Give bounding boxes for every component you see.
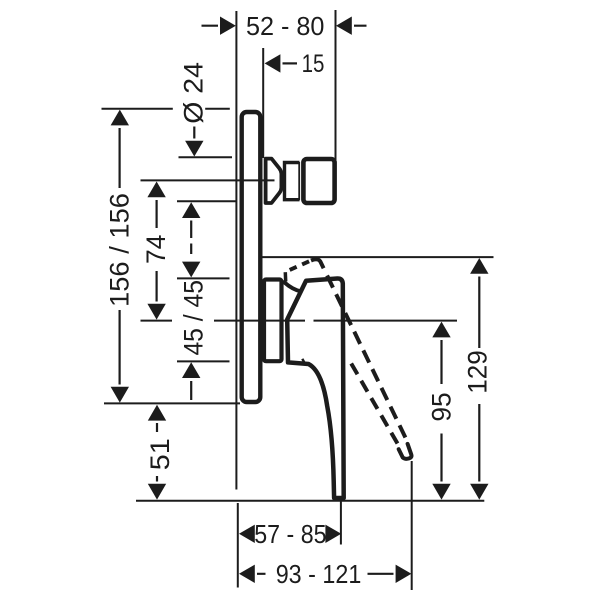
extent line at plate top y109 xyxy=(102,108,230,110)
dashed raised lever back edge and upper edge xyxy=(286,261,311,272)
parting tick on lever neck xyxy=(302,359,306,365)
extent line y361 xyxy=(177,360,230,362)
svg-text:93 - 121: 93 - 121 xyxy=(276,559,362,589)
nut inner line xyxy=(298,162,300,200)
outlet body xyxy=(303,159,334,203)
svg-text:45 / 45: 45 / 45 xyxy=(178,280,208,356)
axis line through outlet y180 xyxy=(141,179,275,181)
dim 156/156 arrows xyxy=(111,110,129,126)
dim 95 arrows xyxy=(432,322,450,338)
extent line plate bottom y403 xyxy=(104,402,240,404)
dim 93-121 arrows xyxy=(239,565,255,583)
dim 45/45 arrows xyxy=(182,202,200,218)
extension line 52-80 right xyxy=(335,10,337,160)
dim 52-80 tails xyxy=(202,25,367,27)
outlet cone xyxy=(266,159,282,203)
svg-text:51: 51 xyxy=(145,438,175,470)
extent line y278 xyxy=(177,277,230,279)
dim 129 shafts xyxy=(478,277,480,482)
dashed raised lever front edge xyxy=(350,361,398,444)
dim 93-121 tails xyxy=(257,573,394,575)
dim Ø24 arrow xyxy=(185,141,203,157)
dim 15 arrow xyxy=(265,54,281,72)
svg-text:15: 15 xyxy=(302,50,325,78)
extension line 15 (plate face) xyxy=(262,48,264,158)
outlet nut xyxy=(285,163,300,200)
dim 57-85 arrows xyxy=(239,525,255,543)
axis line through handle y320 xyxy=(141,320,458,322)
dim Ø24 shaft xyxy=(193,127,195,139)
extension line below handle tip xyxy=(340,501,342,545)
dim 51 arrows xyxy=(148,405,166,421)
wall line xyxy=(235,11,237,490)
dim 52-80 arrows xyxy=(220,17,236,35)
floor line xyxy=(136,500,484,502)
svg-text:129: 129 xyxy=(463,350,493,394)
svg-text:156 / 156: 156 / 156 xyxy=(104,193,134,307)
dim 15 tail xyxy=(283,62,298,64)
svg-text:74: 74 xyxy=(141,235,171,264)
dim 74 arrows xyxy=(147,182,165,198)
valve sleeve xyxy=(264,280,282,362)
svg-text:52 - 80: 52 - 80 xyxy=(246,11,325,41)
handle body and lever xyxy=(287,278,344,498)
dim 51 shafts xyxy=(156,423,158,482)
extent line raised lever top y257 xyxy=(262,256,494,258)
pivot piece above sleeve xyxy=(284,272,288,281)
svg-text:Ø 24: Ø 24 xyxy=(178,62,208,124)
dim 74 shafts xyxy=(156,200,158,302)
escutcheon plate xyxy=(242,112,261,402)
wall extension line below floor xyxy=(237,503,239,588)
svg-text:57 - 85: 57 - 85 xyxy=(254,519,326,549)
dim 156/156 shafts xyxy=(118,128,120,385)
dim 45/45 shafts xyxy=(190,221,192,401)
dim 129 arrows xyxy=(470,258,488,274)
dashed raised lever tip cap xyxy=(399,444,412,459)
cartridge dome arc xyxy=(284,282,301,291)
svg-text:95: 95 xyxy=(426,392,456,421)
extent line outlet top y157 xyxy=(179,156,233,158)
extension line below dashed lever xyxy=(411,461,413,590)
dim 95 shafts xyxy=(440,340,442,482)
extent line outlet bottom y201 xyxy=(177,200,236,202)
